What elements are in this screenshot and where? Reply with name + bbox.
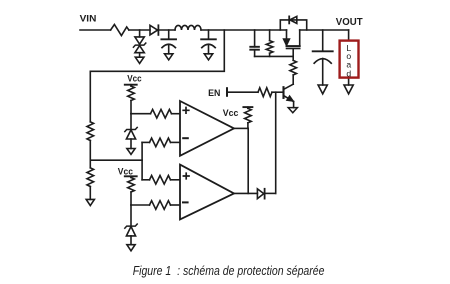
svg-text:VIN: VIN xyxy=(80,13,97,23)
svg-text:d: d xyxy=(346,68,351,78)
svg-text:Vcc: Vcc xyxy=(223,108,239,118)
svg-text:EN: EN xyxy=(208,88,221,98)
svg-text:Figure 1 : schéma de protecti: Figure 1 : schéma de protection séparée xyxy=(133,263,325,278)
svg-text:Vcc: Vcc xyxy=(127,73,141,83)
svg-text:VOUT: VOUT xyxy=(336,17,363,28)
svg-text:Vcc: Vcc xyxy=(118,166,133,176)
